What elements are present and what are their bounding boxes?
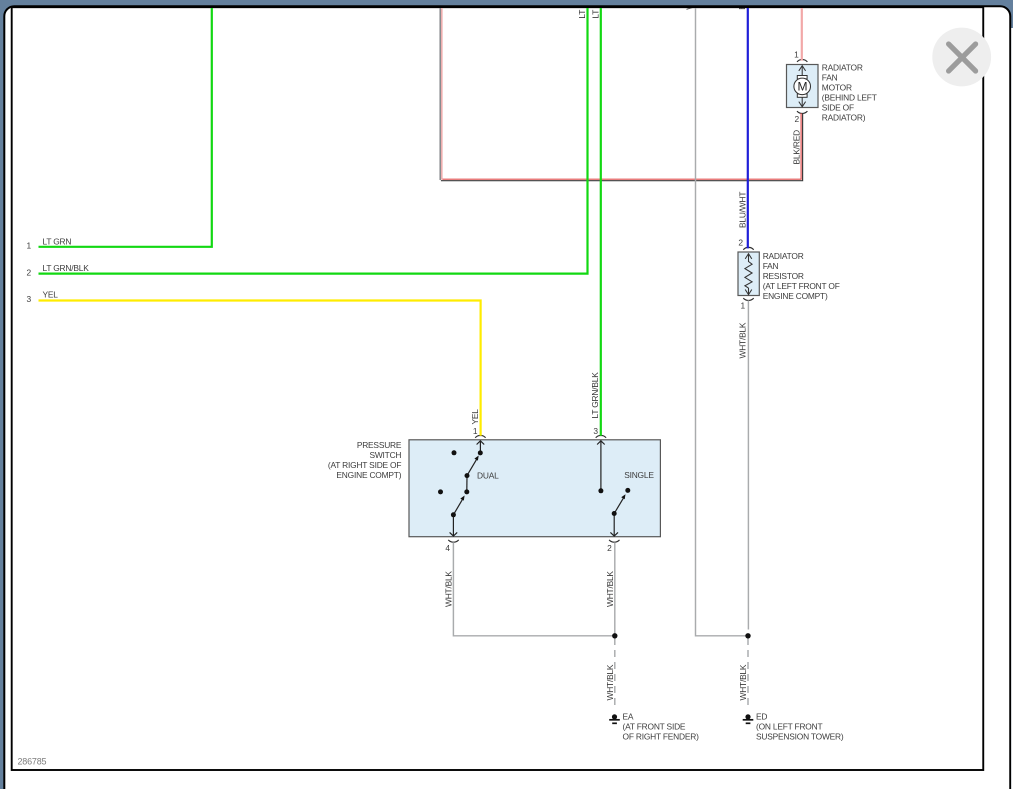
svg-text:EA: EA: [623, 712, 634, 722]
switch pin 1 connector: [475, 435, 485, 437]
svg-text:WHT/BLK: WHT/BLK: [738, 664, 748, 700]
wire WHT/BLK dashed to ground ED: [747, 638, 749, 709]
svg-text:3: 3: [593, 426, 598, 436]
motor pin 1 connector: [797, 60, 807, 62]
resistor R1 label: [763, 251, 840, 301]
svg-text:ED: ED: [756, 712, 767, 722]
switch SINGLE contact dots: [598, 488, 630, 516]
svg-text:3: 3: [27, 294, 32, 304]
wire WHT/BLK from resistor pin 1: [747, 300, 749, 629]
resistor pin 2 connector: [743, 247, 753, 249]
svg-text:RADIATOR: RADIATOR: [763, 251, 804, 261]
svg-text:ENGINE COMPT): ENGINE COMPT): [763, 291, 828, 301]
svg-text:FAN: FAN: [763, 261, 779, 271]
svg-text:RESISTOR: RESISTOR: [763, 271, 804, 281]
svg-text:1: 1: [794, 50, 799, 60]
svg-text:BLU/WHT: BLU/WHT: [737, 0, 747, 10]
wire BLK/RED red strand: [443, 113, 802, 179]
svg-text:LT GRN: LT GRN: [43, 237, 72, 247]
resistor R1 radiator fan resistor: [738, 252, 759, 296]
svg-text:LT GRN/BLK: LT GRN/BLK: [590, 0, 600, 19]
svg-text:(BEHIND LEFT: (BEHIND LEFT: [822, 93, 877, 103]
svg-text:WHT/BLK: WHT/BLK: [605, 571, 615, 607]
switch DUAL contact dots: [438, 450, 483, 517]
switch pin 2 connector: [609, 540, 619, 542]
svg-text:WHT/BLK: WHT/BLK: [605, 664, 615, 700]
svg-text:2: 2: [795, 114, 800, 124]
svg-text:DUAL: DUAL: [477, 470, 499, 480]
svg-text:FAN: FAN: [822, 73, 838, 83]
svg-text:LT GRN/BLK: LT GRN/BLK: [590, 372, 600, 419]
pressure switch S1 box: [409, 440, 660, 537]
switch internals DUAL: [450, 441, 485, 536]
wire LT GRN horizontal+riser: [39, 0, 212, 247]
svg-text:SIDE OF: SIDE OF: [822, 103, 854, 113]
switch pin 4 connector: [448, 540, 458, 542]
svg-text:YEL: YEL: [43, 290, 59, 300]
wire BLK/RED black strand riser: [439, 0, 441, 180]
svg-text:2: 2: [738, 238, 743, 248]
svg-text:1: 1: [27, 240, 32, 250]
connector C1 wire-end labels: [27, 237, 90, 304]
svg-text:WHT/BLK: WHT/BLK: [684, 0, 694, 10]
svg-text:OF RIGHT FENDER): OF RIGHT FENDER): [623, 732, 700, 742]
wire WHT/BLK from switch pin 4: [453, 542, 612, 636]
svg-text:MOTOR: MOTOR: [822, 83, 852, 93]
svg-text:BLU/WHT: BLU/WHT: [737, 192, 747, 228]
svg-text:286785: 286785: [18, 757, 47, 767]
wire RED/WHT to motor pin 1: [801, 0, 803, 61]
svg-text:BLK/RED: BLK/RED: [792, 130, 802, 165]
motor M1 label: [822, 63, 877, 123]
ground EA symbol: [609, 714, 620, 723]
wire BLK/RED black strand: [441, 113, 803, 180]
svg-text:2: 2: [607, 543, 612, 553]
svg-text:WHT/BLK: WHT/BLK: [444, 571, 454, 607]
rotated wire labels: [444, 0, 802, 701]
wire LT GRN/BLK horizontal+riser: [39, 0, 588, 274]
svg-text:1: 1: [473, 426, 478, 436]
connector arcs layer: [448, 60, 807, 543]
svg-text:1: 1: [741, 301, 746, 311]
wire LT GRN/BLK to pin 3: [600, 0, 602, 436]
wire YEL: [39, 301, 481, 436]
svg-text:YEL: YEL: [470, 409, 480, 425]
ground ED symbol: [743, 714, 754, 723]
ground EA label: [623, 712, 700, 742]
svg-text:(AT RIGHT SIDE OF: (AT RIGHT SIDE OF: [328, 460, 401, 470]
close button X icon: [949, 44, 976, 71]
svg-text:LT GRN: LT GRN: [577, 0, 587, 19]
junction node ED: [745, 633, 750, 638]
close button: [932, 28, 991, 87]
svg-text:ENGINE COMPT): ENGINE COMPT): [336, 470, 401, 480]
svg-text:(AT LEFT FRONT OF: (AT LEFT FRONT OF: [763, 281, 840, 291]
motor M1 radiator fan motor: [787, 65, 819, 108]
svg-text:SINGLE: SINGLE: [624, 470, 654, 480]
svg-text:RADIATOR): RADIATOR): [822, 113, 866, 123]
svg-text:(ON LEFT FRONT: (ON LEFT FRONT: [756, 722, 822, 732]
switch internals SINGLE: [597, 441, 625, 536]
svg-text:WHT/BLK: WHT/BLK: [737, 322, 747, 358]
wire WHT/BLK dashed to ground EA: [614, 638, 616, 709]
svg-text:M: M: [798, 80, 808, 94]
svg-text:LT GRN/BLK: LT GRN/BLK: [43, 263, 90, 273]
page white strip at right edge: [1011, 28, 1013, 789]
svg-text:2: 2: [27, 267, 32, 277]
svg-text:(AT FRONT SIDE: (AT FRONT SIDE: [623, 722, 686, 732]
pressure switch label: [328, 440, 402, 480]
svg-text:SUSPENSION TOWER): SUSPENSION TOWER): [756, 732, 844, 742]
motor pin 2 connector: [797, 111, 807, 113]
wire WHT/BLK from switch pin 2: [614, 542, 616, 634]
switch pin 3 connector: [596, 435, 606, 437]
ground ED label: [756, 712, 844, 742]
svg-text:4: 4: [445, 543, 450, 553]
junction node EA: [612, 633, 617, 638]
svg-text:SWITCH: SWITCH: [369, 450, 401, 460]
svg-text:PRESSURE: PRESSURE: [357, 440, 402, 450]
wire WHT/BLK from top: [696, 0, 747, 636]
resistor pin 1 connector: [743, 298, 753, 300]
wire BLU/WHT: [747, 0, 749, 248]
wire BLK/RED red strand riser: [441, 0, 443, 180]
svg-text:RADIATOR: RADIATOR: [822, 63, 863, 73]
